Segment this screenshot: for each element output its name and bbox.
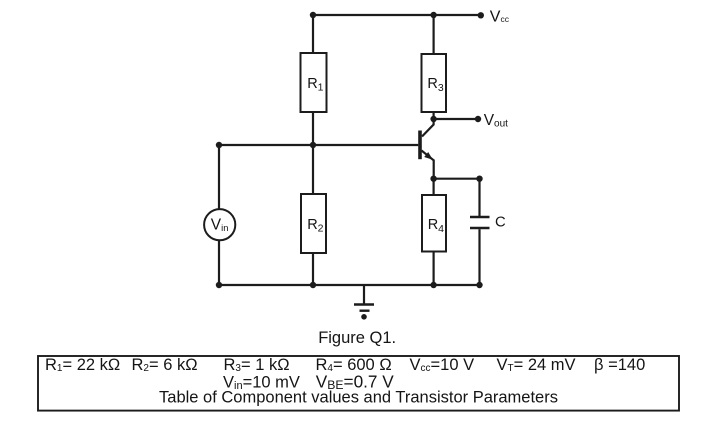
svg-text:R2= 6 kΩ: R2= 6 kΩ <box>132 356 198 374</box>
svg-text:C: C <box>495 214 506 230</box>
svg-text:Figure Q1.: Figure Q1. <box>318 329 396 347</box>
svg-text:Vcc=10 V: Vcc=10 V <box>410 356 475 374</box>
svg-text:β =140: β =140 <box>594 356 645 374</box>
svg-text:R1= 22 kΩ: R1= 22 kΩ <box>45 356 120 374</box>
svg-text:R3= 1 kΩ: R3= 1 kΩ <box>224 356 290 374</box>
svg-text:Table of Component values and: Table of Component values and Transistor… <box>159 389 558 407</box>
